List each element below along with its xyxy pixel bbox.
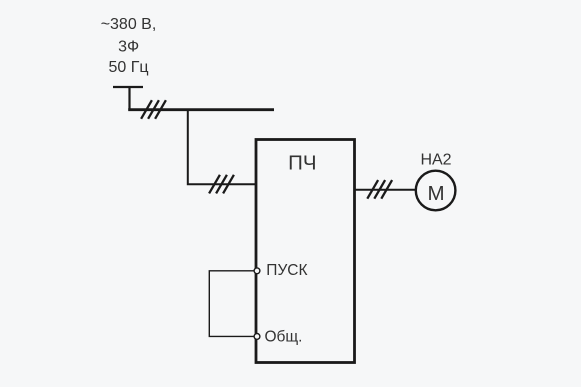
3-phase slashes on input wire [209, 175, 234, 194]
bus wire [128, 108, 274, 111]
3-phase slashes on output wire [367, 180, 392, 199]
svg-text:50 Гц: 50 Гц [108, 59, 148, 76]
svg-text:ПЧ: ПЧ [288, 152, 316, 175]
wire from bus to converter input [188, 110, 256, 185]
svg-text:НА2: НА2 [420, 151, 451, 168]
wire from converter output to motor [355, 189, 417, 191]
label ~380 V 3-phase 50 Hz [101, 16, 157, 76]
supply terminal symbol [113, 86, 143, 110]
terminal PUSK [254, 268, 260, 274]
svg-text:~380 В,: ~380 В, [101, 16, 157, 33]
terminal common [254, 334, 260, 340]
3-phase slashes on bus [141, 100, 166, 119]
motor M1 circle [416, 171, 456, 211]
svg-text:Общ.: Общ. [265, 328, 303, 345]
svg-text:3Ф: 3Ф [118, 39, 139, 56]
svg-text:ПУСК: ПУСК [266, 262, 307, 279]
svg-text:М: М [427, 182, 444, 205]
frequency converter box ПЧ [256, 140, 355, 363]
jumper wire loop between PUSK and common terminals [209, 271, 254, 337]
